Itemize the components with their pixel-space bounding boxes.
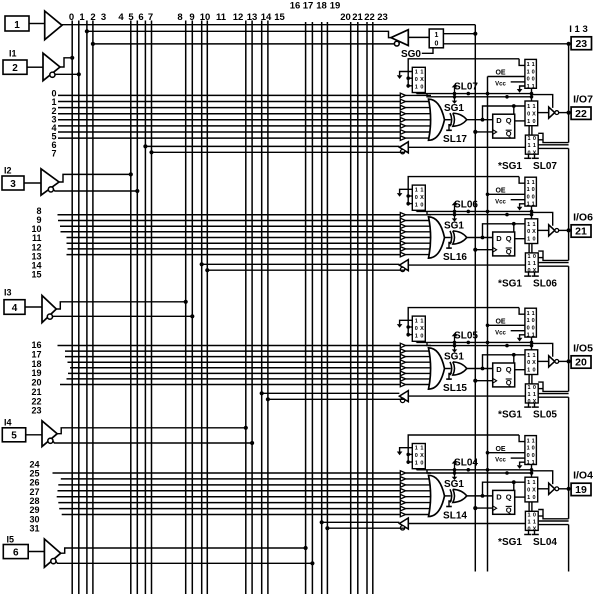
wire adjacent pin to feedback mux a xyxy=(538,520,568,522)
or-gate OR3 (8-input) xyxy=(429,348,445,389)
mux output select box xyxy=(525,477,538,502)
node label SL05 bottom xyxy=(533,410,557,421)
wire Vcc stub xyxy=(511,199,525,201)
svg-text:1: 1 xyxy=(527,104,530,110)
wire array column 21 xyxy=(357,22,359,594)
wire Vcc stub xyxy=(511,81,525,83)
wire array column 1 xyxy=(78,21,80,595)
svg-text:*SG1: *SG1 xyxy=(498,161,522,172)
wire product term row 1 xyxy=(58,101,400,103)
node label row 24 xyxy=(29,459,39,469)
svg-text:0: 0 xyxy=(434,41,438,48)
buffer product term row 26 input xyxy=(400,483,431,488)
wire CLK line across array top xyxy=(62,24,475,26)
svg-text:SG1: SG1 xyxy=(444,221,464,232)
wire SG1 control line xyxy=(427,470,533,473)
svg-text:1: 1 xyxy=(527,438,530,444)
node label Vcc xyxy=(495,458,506,464)
svg-text:0: 0 xyxy=(420,333,423,339)
svg-text:23: 23 xyxy=(377,12,388,23)
svg-text:11: 11 xyxy=(216,12,227,23)
node label row 6 xyxy=(51,140,56,150)
wire XOR1 output to FF1 D xyxy=(467,119,493,121)
flip-flop FF3 box xyxy=(493,363,515,387)
node label OE xyxy=(495,70,505,77)
wire product term row 29 xyxy=(58,502,400,504)
node label column 16 xyxy=(290,1,301,12)
node label I2 xyxy=(4,166,12,176)
wire SL06 mux output xyxy=(416,210,418,211)
node label row 26 xyxy=(29,478,39,488)
buffer U-I4 (true/complement input buffer) xyxy=(42,421,57,447)
wire rail jog to feedback mux xyxy=(538,133,568,142)
pin 21 box xyxy=(571,225,591,238)
svg-text:0: 0 xyxy=(415,453,418,459)
buffer product term row 21 input xyxy=(400,371,431,376)
buffer product term row 12 input xyxy=(400,235,431,240)
node label row 9 xyxy=(36,215,41,225)
wire pin 5 to buffer xyxy=(26,434,42,436)
node junction SL05 mux in b xyxy=(406,333,412,337)
node label SG1 xyxy=(444,103,464,114)
node junction CLK rail SG0 xyxy=(473,32,477,36)
wire product term row 27 xyxy=(58,490,401,492)
svg-text:SG1: SG1 xyxy=(444,103,464,114)
svg-text:0: 0 xyxy=(532,237,535,243)
node label SL07 bottom xyxy=(533,161,557,172)
wire product term row 12 xyxy=(67,237,401,239)
wire XOR2 output to FF2 D xyxy=(467,237,493,239)
wire feedback complement to column 11 xyxy=(205,268,405,272)
wire CLK to FF3 xyxy=(473,379,493,383)
wire buffer I4 complement output to column 13 xyxy=(53,441,253,443)
wire buffer I2 true output to column 4 xyxy=(59,174,131,182)
wire product term row 2 xyxy=(58,107,400,109)
node label row 28 xyxy=(29,496,39,506)
svg-text:1: 1 xyxy=(527,318,530,324)
svg-text:1: 1 xyxy=(527,143,530,149)
pin 2 box xyxy=(3,60,27,74)
svg-text:6: 6 xyxy=(13,547,19,558)
svg-text:22: 22 xyxy=(575,108,587,120)
svg-text:19: 19 xyxy=(330,1,341,12)
mux feedback select box xyxy=(525,135,538,156)
svg-text:0: 0 xyxy=(532,318,535,324)
wire SL04 mux feed vertical xyxy=(408,435,519,464)
svg-text:1: 1 xyxy=(420,70,423,76)
wire array column 4 xyxy=(130,21,132,595)
node label column 15 xyxy=(274,12,285,23)
wire feedback mux tab xyxy=(538,515,543,517)
node label column 10 xyxy=(200,12,211,23)
wire SL04 mux output xyxy=(416,469,418,470)
fuse feedback select b xyxy=(532,530,539,534)
node label column 14 xyxy=(261,12,272,23)
fuse arrow SG1 xyxy=(452,341,458,352)
wire I13 line to SG0 input 0 xyxy=(444,43,572,45)
mux SG0 box xyxy=(429,29,443,48)
wire adjacent pin to feedback mux a xyxy=(538,262,568,264)
node junction SL06 mux in b xyxy=(406,202,412,206)
node label row 30 xyxy=(29,514,39,524)
node label I4 xyxy=(4,418,12,428)
wire OE mux row1 feed xyxy=(519,59,525,66)
buffer product term row 1 input xyxy=(400,99,431,104)
svg-text:1: 1 xyxy=(532,480,535,486)
node label row 23 xyxy=(31,406,41,416)
svg-text:I/O5: I/O5 xyxy=(573,342,593,354)
svg-text:0: 0 xyxy=(532,325,535,331)
svg-text:0: 0 xyxy=(533,254,536,260)
wire OE mux row1 feed xyxy=(519,435,525,442)
node junction OE rail to control xyxy=(486,341,490,345)
node label SG1 xyxy=(444,221,464,232)
wire product term row 24 xyxy=(53,472,401,474)
mux feedback select box xyxy=(525,511,538,532)
wire array column 19 xyxy=(326,22,328,594)
pin 22 box xyxy=(571,107,591,120)
svg-text:19: 19 xyxy=(575,484,587,496)
svg-text:1: 1 xyxy=(415,70,418,76)
svg-text:21: 21 xyxy=(575,226,587,238)
wire buffer I1 true output to column 0 xyxy=(60,58,72,67)
svg-text:X: X xyxy=(532,111,536,117)
svg-text:4: 4 xyxy=(118,12,124,23)
wire SL05 control line xyxy=(417,341,533,343)
pin 19 box xyxy=(571,483,591,496)
wire XOR4 bypass to output mux xyxy=(481,482,525,498)
svg-text:1: 1 xyxy=(527,119,530,125)
xor-gate XOR3 (output polarity) xyxy=(450,362,467,375)
svg-text:SL05: SL05 xyxy=(533,410,557,421)
svg-text:1: 1 xyxy=(527,261,530,267)
wire feedback true to column 10 xyxy=(200,262,400,266)
wire OR3 output to XOR3 xyxy=(445,368,451,370)
wire array column 23 xyxy=(372,22,374,594)
wire feedback mux output xyxy=(408,523,525,525)
svg-text:SL15: SL15 xyxy=(443,383,467,394)
wire pin 1 to buffer xyxy=(29,23,45,25)
wire XOR2 bypass to output mux xyxy=(481,224,525,240)
node junction pin 19 feedback xyxy=(567,487,571,491)
svg-text:1: 1 xyxy=(527,202,530,208)
buffer product term row 9 input xyxy=(400,218,431,223)
wire array column 6 xyxy=(144,21,146,595)
flip-flop FF1 box xyxy=(493,114,515,138)
buffer product term row 0 input xyxy=(400,93,431,98)
svg-text:1: 1 xyxy=(532,438,535,444)
wire tristate to pin 19 xyxy=(559,488,571,490)
svg-text:5: 5 xyxy=(128,12,134,23)
pin 5 box xyxy=(2,428,25,442)
node label row 10 xyxy=(31,224,41,234)
svg-text:1: 1 xyxy=(532,222,535,228)
wire product term row 21 xyxy=(68,372,400,374)
node label row 27 xyxy=(29,487,39,497)
svg-text:Q: Q xyxy=(506,365,512,374)
svg-text:0: 0 xyxy=(532,446,535,452)
svg-text:1: 1 xyxy=(79,12,85,23)
node label SL15 xyxy=(443,383,467,394)
svg-text:6: 6 xyxy=(138,12,143,23)
fuse feedback select a xyxy=(524,154,531,158)
node junction column 1 complement xyxy=(77,72,81,76)
wire product term row 15 xyxy=(67,254,401,256)
wire SL07 control line xyxy=(417,93,533,95)
wire product term row 17 xyxy=(65,350,400,352)
svg-text:SL14: SL14 xyxy=(443,510,467,521)
node junction pin 21 feedback xyxy=(567,228,571,232)
svg-text:13: 13 xyxy=(247,12,258,23)
node label SL07 top xyxy=(454,82,478,93)
node junction OE rail xyxy=(486,193,490,197)
wire SG1 control line xyxy=(427,211,533,214)
wire bypass stub to FF1 top xyxy=(512,104,516,114)
mux OE select box xyxy=(525,59,537,89)
node label column 21 xyxy=(352,12,363,23)
svg-text:0: 0 xyxy=(532,119,535,125)
wire product term row 7 xyxy=(58,137,400,139)
svg-text:1: 1 xyxy=(527,222,530,228)
node label row 5 xyxy=(51,131,56,141)
node label column 13 xyxy=(247,12,258,23)
svg-text:0: 0 xyxy=(532,77,535,83)
svg-text:Vcc: Vcc xyxy=(495,458,506,464)
buffer product term row 27 input xyxy=(400,489,431,494)
wire OE row xyxy=(488,193,525,195)
wire CLK rail vertical xyxy=(474,25,476,572)
svg-text:I2: I2 xyxy=(4,166,12,176)
buffer product term row 16 input xyxy=(400,343,431,348)
node label row 25 xyxy=(29,469,39,479)
wire output mux to tristate xyxy=(538,229,549,231)
wire FB0 true output to column 2 xyxy=(87,31,391,37)
wire CLK to FF4 xyxy=(473,506,493,510)
node label column 17 xyxy=(303,1,314,12)
ground OE mux row4 xyxy=(517,335,525,342)
svg-text:OE: OE xyxy=(495,319,505,326)
node label SG1 xyxy=(444,352,464,363)
wire SL07 mux feed vertical xyxy=(408,59,519,88)
buffer product term row 18 input xyxy=(400,354,431,359)
svg-text:2: 2 xyxy=(90,12,95,23)
svg-text:1: 1 xyxy=(434,32,438,39)
wire right feedback rail segment top xyxy=(568,44,570,143)
node junction control line 2 xyxy=(505,213,509,217)
fuse SL17 polarity input xyxy=(446,125,452,131)
flip-flop FF2 box xyxy=(493,232,515,256)
svg-text:0: 0 xyxy=(527,194,530,200)
wire buffer I4 true output to column 12 xyxy=(57,428,246,434)
svg-text:0: 0 xyxy=(527,488,530,494)
wire XOR4 output to FF4 D xyxy=(467,495,493,497)
svg-text:23: 23 xyxy=(31,406,41,416)
node junction control line 2 xyxy=(505,471,509,475)
svg-text:8: 8 xyxy=(177,12,182,23)
wire right feedback rail segment 1 xyxy=(568,148,570,260)
svg-text:17: 17 xyxy=(303,1,314,12)
wire SG1 control line xyxy=(427,94,533,97)
tristate output buffer 2 xyxy=(549,225,559,236)
fuse arrow SG1 xyxy=(452,469,458,480)
node label I1 xyxy=(9,49,17,59)
wire XOR3 bypass to output mux xyxy=(481,355,525,371)
buffer U-I3 (true/complement input buffer) xyxy=(42,296,56,323)
wire product term row 18 xyxy=(65,356,400,358)
node label row 7 xyxy=(51,149,56,159)
wire output mux to feedback mux stub a xyxy=(528,502,530,511)
wire array column 14 xyxy=(261,21,263,595)
buffer product term row 22 input xyxy=(400,377,431,382)
wire tristate enable xyxy=(532,95,553,108)
pin 23 box xyxy=(571,37,591,50)
wire OR1 output to XOR1 xyxy=(445,119,451,121)
node label I/O6 xyxy=(573,211,593,223)
ground OE mux row4 xyxy=(517,204,525,211)
svg-text:0: 0 xyxy=(527,77,530,83)
wire feedback true to column 18 xyxy=(320,520,400,524)
node junction SL07 mux in b xyxy=(406,84,412,88)
wire OE row xyxy=(488,76,525,78)
svg-text:21: 21 xyxy=(352,12,363,23)
wire pin 2 to buffer xyxy=(27,66,43,68)
wire output mux to tristate xyxy=(538,360,549,362)
tristate output buffer 4 xyxy=(549,483,559,494)
buffer product term row 8 input xyxy=(400,213,431,218)
node label SL16 xyxy=(443,252,467,263)
fuse arrow SG1 xyxy=(452,210,458,221)
mux SL06 PTD box xyxy=(412,185,425,210)
svg-text:0: 0 xyxy=(532,187,535,193)
wire array column 12 xyxy=(245,21,247,595)
svg-text:1: 1 xyxy=(532,62,535,68)
node label column 12 xyxy=(233,12,244,23)
wire SL05 mux row1 ground xyxy=(397,320,413,328)
pin 20 box xyxy=(571,356,591,369)
node label row 14 xyxy=(31,261,41,271)
svg-text:SL16: SL16 xyxy=(443,252,467,263)
svg-text:X: X xyxy=(420,195,424,201)
wire product term row 23 xyxy=(60,384,400,386)
mux SL07 PTD box xyxy=(412,67,425,92)
wire CLK to FF1 xyxy=(473,130,493,134)
svg-text:SL04: SL04 xyxy=(533,537,557,548)
fuse arrow SG1 xyxy=(452,93,458,104)
svg-text:1: 1 xyxy=(415,187,418,193)
buffer product term row 11 input xyxy=(400,230,431,235)
mux output select box xyxy=(525,101,538,126)
wire SG0 select stub xyxy=(422,48,433,54)
svg-text:OE: OE xyxy=(495,70,505,77)
wire buffer I1 complement output to column 1 xyxy=(55,73,79,75)
svg-text:SG1: SG1 xyxy=(444,479,464,490)
node label row 15 xyxy=(31,270,41,280)
svg-text:0: 0 xyxy=(533,136,536,142)
buffer product term row 31 input xyxy=(400,512,431,517)
xor-gate XOR1 (output polarity) xyxy=(450,113,467,126)
svg-text:0: 0 xyxy=(533,512,536,518)
svg-text:Vcc: Vcc xyxy=(495,82,506,88)
svg-text:1: 1 xyxy=(415,85,418,91)
node label I/O7 xyxy=(573,94,593,106)
node label column 23 xyxy=(377,12,388,23)
svg-text:5: 5 xyxy=(11,431,17,442)
node junction control line xyxy=(467,210,471,214)
svg-text:0: 0 xyxy=(532,495,535,501)
wire array column 20 xyxy=(350,22,352,594)
svg-text:1: 1 xyxy=(527,180,530,186)
wire FF1 Q to output mux xyxy=(515,120,525,122)
node junction OE rail xyxy=(486,451,490,455)
fuse arrow SL05 xyxy=(452,333,458,344)
svg-text:1: 1 xyxy=(527,254,530,260)
wire feedback mux output xyxy=(408,395,525,397)
wire FF2 Q to output mux xyxy=(515,238,525,240)
wire product term row 16 xyxy=(58,345,401,347)
fuse feedback select b xyxy=(532,154,539,158)
svg-text:I1: I1 xyxy=(9,49,17,59)
svg-text:1: 1 xyxy=(527,368,530,374)
flip-flop FF4 box xyxy=(493,490,515,514)
svg-text:3: 3 xyxy=(10,179,16,190)
node label row 0 xyxy=(51,89,56,99)
node label column 20 xyxy=(340,12,351,23)
buffer product term row 2 input xyxy=(400,105,431,110)
fuse feedback select b xyxy=(532,403,539,407)
buffer product term row 28 input xyxy=(400,494,431,499)
wire rail jog to feedback mux xyxy=(538,382,568,391)
svg-text:9: 9 xyxy=(189,12,194,23)
node junction pin 22 feedback xyxy=(567,111,571,115)
svg-text:SG1: SG1 xyxy=(444,352,464,363)
svg-text:0: 0 xyxy=(532,453,535,459)
node label row 21 xyxy=(31,387,41,397)
buffer feedback driver 2 xyxy=(399,260,408,272)
wire CLK to FF2 xyxy=(473,248,493,252)
fuse SL16 polarity input xyxy=(446,243,452,249)
node label column 6 xyxy=(138,12,143,23)
wire right feedback rail segment bottom xyxy=(568,525,570,572)
svg-text:1: 1 xyxy=(527,84,530,90)
svg-text:12: 12 xyxy=(233,12,244,23)
wire output mux to feedback mux stub a xyxy=(528,244,530,253)
buffer product term row 25 input xyxy=(400,477,431,482)
wire adjacent pin to feedback mux a xyxy=(538,393,568,395)
wire Vcc stub xyxy=(511,330,525,332)
svg-text:1: 1 xyxy=(527,446,530,452)
svg-text:0: 0 xyxy=(420,202,423,208)
svg-text:SL06: SL06 xyxy=(454,199,478,210)
svg-text:1: 1 xyxy=(527,512,530,518)
wire array column 3 xyxy=(92,21,94,595)
buffer product term row 4 input xyxy=(400,118,431,123)
wire array column 15 xyxy=(267,21,269,595)
node label column 18 xyxy=(316,1,327,12)
wire SL07 mux row1 ground xyxy=(397,72,413,80)
wire product term row 28 xyxy=(57,496,401,498)
svg-text:10: 10 xyxy=(200,12,211,23)
buffer product term row 15 input xyxy=(400,252,431,257)
wire feedback complement to column 15 xyxy=(266,397,405,401)
node label column 22 xyxy=(364,12,375,23)
svg-text:14: 14 xyxy=(261,12,272,23)
svg-text:1: 1 xyxy=(532,311,535,317)
mux SL04 PTD box xyxy=(412,444,425,469)
node junction OE rail to control xyxy=(486,210,490,214)
node junction SL07 mux in a xyxy=(406,76,412,80)
node label OE xyxy=(495,319,505,326)
svg-text:1: 1 xyxy=(527,187,530,193)
